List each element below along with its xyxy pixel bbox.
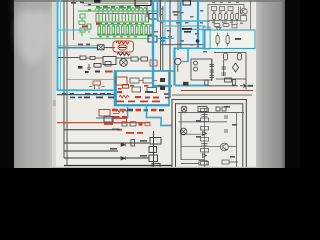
wire: cyan trunk x153	[152, 0, 154, 86]
red speck labels	[113, 116, 143, 134]
crystal X201	[132, 87, 141, 92]
wire: grey over-line	[58, 45, 97, 47]
scanned page right margin	[256, 0, 285, 168]
wire: cyan vertical bus A	[57, 0, 59, 91]
wire: dark link y44.7	[161, 44, 209, 46]
resistor R803 (dark zigzag)	[117, 53, 130, 56]
heatsink hatch	[239, 7, 241, 15]
red part above IF box	[150, 60, 157, 66]
wire: cyan elbow y71	[153, 70, 174, 72]
resistor R903	[225, 14, 228, 20]
bus labels	[84, 91, 153, 98]
connector P501	[150, 138, 161, 145]
wire: thin cyan x165	[164, 0, 166, 44]
capacitor C805	[94, 64, 101, 68]
junction blob	[196, 39, 200, 43]
resistor R201 (red zigzag)	[119, 95, 129, 98]
wire: tr right border	[250, 0, 252, 33]
resistor R901	[213, 14, 216, 20]
tiny labels in power box	[196, 106, 237, 158]
dark bits in IF box	[160, 78, 165, 90]
top scan shadow	[14, 0, 285, 2]
wire: rail y134.2	[181, 133, 204, 135]
coil L201	[147, 88, 157, 93]
red link in box	[139, 80, 157, 82]
arrow KC20	[240, 84, 253, 87]
resistor stack	[179, 108, 237, 169]
relay box K801	[103, 57, 116, 65]
red speck at IC left	[96, 23, 100, 25]
wire: rail y143	[64, 142, 149, 144]
component row y122	[122, 122, 150, 126]
resistor R502	[201, 118, 209, 122]
lamp LP1 (crossed circle)	[181, 106, 187, 112]
wire: red rail y122.7	[57, 122, 150, 124]
coil box inside K801	[105, 62, 111, 67]
capacitor column C923	[210, 59, 215, 81]
wire: cyan drop x188	[187, 48, 189, 62]
capacitor C912 inside tuner	[226, 33, 229, 47]
flyback box	[241, 16, 247, 22]
capacitor C911 inside tuner	[216, 33, 219, 47]
wire: teal vertical bus E	[73, 0, 75, 40]
red specks in box	[118, 85, 162, 90]
wire: rail y79	[216, 78, 246, 80]
connector P502	[149, 147, 157, 153]
wire: green top bus	[78, 3, 157, 11]
wire: cyan stub to M1	[182, 61, 189, 63]
video-out board box	[183, 0, 191, 5]
mid gray speck labels	[154, 8, 207, 53]
label PIP (red)	[82, 26, 88, 28]
diode D801 in red ellipse	[118, 45, 127, 50]
ground symbol G1	[87, 64, 91, 70]
IC IF202	[143, 78, 153, 83]
wire: rail y146.3	[181, 145, 221, 147]
tuner box TU101	[205, 30, 255, 49]
capacitor C905	[232, 25, 237, 28]
wire: tr bottom rail	[209, 31, 248, 33]
capacitor C921	[194, 61, 198, 65]
resistor R504	[201, 138, 209, 142]
lamp LP2 (crossed circle)	[180, 128, 187, 135]
capacitor C901	[212, 7, 217, 11]
wire: left drop in box	[180, 113, 182, 161]
label (red) near chain	[105, 71, 113, 73]
wire: dark pair x160	[161, 0, 163, 70]
power board outer frame	[172, 100, 246, 170]
red loop around R802	[113, 41, 134, 52]
label row above IC	[96, 6, 140, 9]
motor symbol M1	[175, 58, 181, 64]
resistor R505	[201, 149, 209, 153]
scanned page left margin	[14, 0, 52, 168]
diode D51 on rail	[121, 143, 125, 147]
resistor R301 (red zigzag)	[116, 110, 127, 113]
connector PCM6 upper	[149, 14, 158, 20]
resistor R907	[223, 24, 229, 27]
scan bottom shade	[52, 167, 256, 168]
wire: rail y158	[64, 157, 149, 159]
green pin hatch under bus	[98, 11, 148, 15]
wire: cyan link y38.5	[157, 38, 174, 40]
wire: chain link	[153, 131, 155, 168]
red box left	[99, 110, 110, 117]
grey tint wash top right	[206, 0, 254, 34]
wire: link to arrow	[208, 85, 238, 87]
IF block box	[115, 71, 170, 106]
resistor R906	[214, 24, 220, 27]
wire: stack spine	[204, 108, 206, 168]
wire: blue horizontal bus	[57, 94, 115, 96]
wire: dark feed continuation	[104, 47, 115, 49]
diode D921	[233, 63, 239, 72]
small cyan connector left of tuner	[203, 27, 210, 49]
wire: rail y146.3 right	[228, 145, 237, 147]
component inside box edge	[123, 85, 129, 89]
wire: cyan cross link y21	[157, 20, 210, 22]
cap network box	[191, 59, 212, 80]
red filter FL201	[116, 77, 127, 85]
wire: cyan link y26	[165, 25, 205, 27]
misc marks top-left	[71, 2, 91, 6]
resistor R921	[224, 53, 228, 60]
connector P503	[149, 155, 158, 162]
wire: dark vertical bus C	[63, 0, 65, 158]
capacitor C501	[202, 115, 208, 117]
wire: top link y52	[214, 52, 246, 54]
wire: cyan horizontal feed	[58, 47, 98, 49]
capacitor C924	[222, 60, 227, 76]
wire: rail y159.3	[181, 158, 204, 160]
connector on cyan feeder	[183, 82, 189, 86]
bottom parts in power box	[181, 160, 238, 165]
wire: rail y151	[64, 150, 118, 152]
resistor R52	[131, 140, 135, 147]
multicolor label row under box	[112, 109, 164, 112]
wire: dark vertical x170	[169, 0, 171, 98]
wire: cyan elbow below box	[96, 107, 128, 118]
bridge rectifier BR801	[120, 59, 128, 67]
letterbox backdrop	[0, 0, 300, 168]
wire: box top rail	[178, 112, 244, 114]
wire: cyan riser x204.5	[204, 30, 206, 48]
wire: cyan staircase	[147, 105, 173, 126]
resistor R501	[201, 108, 209, 112]
capacitor C904	[228, 7, 233, 11]
diode D52 on rail	[121, 156, 125, 160]
wire: cyan trunk x198	[197, 0, 199, 49]
transistor Q501	[221, 143, 229, 151]
blue label dashes under bus	[62, 93, 111, 98]
wire: cyan vertical bus B	[60, 0, 62, 91]
IC IF201	[130, 78, 139, 83]
red parts row	[116, 91, 160, 102]
wire: cyan overlay on bus	[57, 89, 114, 91]
blue tint wash	[150, 0, 206, 56]
label 482B (red)	[104, 123, 113, 125]
capacitor C201 group left of IC	[79, 14, 91, 36]
wire: green rail y79.5	[66, 79, 151, 81]
connector P504	[152, 164, 160, 169]
wire: cyan link y48.3	[175, 47, 205, 49]
component chain small parts	[78, 66, 100, 73]
red box on rail	[112, 119, 127, 124]
shield box top (cut off)	[135, 0, 160, 17]
wire: cyan stub into green section	[58, 29, 88, 31]
component K301	[104, 117, 113, 123]
schematic paper	[52, 0, 256, 168]
wire: stem below M1	[177, 65, 179, 72]
wire: brown vertical x178	[177, 0, 179, 50]
dark speck text row under IC	[99, 23, 144, 38]
wire: cyan link y29.4	[181, 28, 211, 30]
label REAR IN	[173, 11, 180, 16]
inline box on link	[225, 78, 232, 82]
tr gray speck labels	[211, 2, 243, 35]
resistor R503	[201, 127, 209, 131]
wire: tr top rail	[208, 4, 244, 6]
label NX near box corner	[164, 93, 169, 98]
wire: grey line y95	[172, 94, 252, 96]
wire: cyan trunk x174.5 (lower)	[173, 48, 175, 86]
label RGB IN	[182, 28, 192, 33]
wire: tr mid rail	[209, 20, 240, 22]
resistor R905	[236, 14, 239, 20]
wire: right drop x236.5	[236, 113, 238, 170]
label (blue) mid	[160, 37, 166, 42]
rail end labels	[110, 129, 147, 157]
IC U201 pin strokes	[99, 15, 145, 22]
label inside tuner	[235, 38, 241, 40]
wire: rail y129.8	[64, 129, 120, 131]
resistor R902	[219, 14, 222, 20]
wire: cyan trunk through box	[153, 71, 172, 86]
wire: cyan trunk x157.5 (top)	[157, 0, 159, 21]
resistor array RA201	[98, 25, 152, 36]
capacitor C902	[220, 7, 225, 11]
IC U201 outline	[96, 14, 149, 23]
green misc specks	[88, 9, 91, 11]
paper edge highlight left	[52, 0, 56, 168]
connector PCM6 lower	[148, 36, 157, 42]
power board inner frame	[176, 104, 243, 169]
fuse F801 on cyan feed	[98, 45, 105, 50]
small cap pair right	[224, 116, 228, 132]
chain extra parts	[80, 56, 148, 61]
wire: rail y121.9	[179, 121, 228, 123]
resistor on cyan feeder	[205, 80, 208, 85]
diode D505	[203, 154, 207, 158]
wire: cyan elbow y86	[153, 85, 172, 87]
capacitor C922	[194, 67, 198, 71]
wire: cyan feeder y85.5	[175, 85, 208, 87]
wire: rail y165.5	[64, 165, 172, 167]
resistor R506	[201, 162, 209, 166]
wire: tr stubs	[214, 5, 244, 26]
wire: dark vertical bus D	[66, 0, 68, 166]
wire: green resistor-array bottom rail	[90, 25, 153, 39]
resistor R904	[231, 14, 234, 20]
transistor Q901	[241, 8, 247, 14]
wire: cyan trunk x180.5 (upper)	[179, 0, 181, 48]
IF transformer T201 on bus	[89, 81, 105, 89]
wire: tr left riser	[207, 4, 209, 32]
diode D901	[216, 28, 221, 31]
label 285 above feed	[78, 44, 90, 46]
resistor R931	[233, 80, 236, 86]
wire: brown line y90.5	[181, 90, 253, 92]
diode D503	[203, 132, 207, 136]
margin label 471	[53, 100, 57, 106]
capacitor C504	[202, 144, 208, 146]
box label row	[198, 107, 226, 112]
wire: red link y113.5	[113, 113, 119, 115]
connector header J1 top edge	[94, 0, 101, 3]
wire: dark stub into chain	[58, 57, 80, 59]
wire: drop x246	[245, 53, 247, 90]
resistor R922	[238, 53, 242, 60]
resistor R802 (red zigzag)	[116, 41, 129, 44]
green tint wash	[76, 1, 158, 41]
